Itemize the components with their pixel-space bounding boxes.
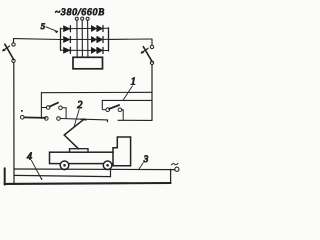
wire top trolley bus (41, 91, 152, 93)
diode VD3 (97, 26, 102, 32)
terminal left feeder (21, 116, 25, 120)
wire right branch (102, 99, 152, 101)
current collector shoe (81, 118, 86, 120)
wire left DC lead (14, 38, 61, 41)
leader 4 arrowhead (40, 177, 43, 180)
leader for 1 (123, 86, 132, 100)
wire bottom trolley bus right (118, 119, 152, 121)
rectifier 5 right bus (108, 28, 110, 51)
trolley wire mid (14, 175, 111, 176)
disconnector lower left (45, 117, 49, 121)
wire phase A drop (76, 20, 78, 57)
trolley car body (50, 152, 114, 163)
tilde mark (172, 163, 178, 165)
svg-text:5: 5 (41, 21, 45, 31)
wire left bus drop (40, 93, 42, 119)
diode VD4 (64, 37, 71, 43)
phase terminal C (86, 17, 89, 20)
diode VD7 (64, 47, 71, 53)
trolley car cab (113, 137, 131, 166)
wire phase C drop (87, 20, 89, 57)
diode VD2 (91, 26, 96, 32)
disconnector upper left (41, 107, 46, 109)
wheel right (103, 161, 112, 170)
ground wall (4, 168, 6, 184)
rectifier output block (73, 57, 103, 69)
leader for 2 (74, 109, 79, 126)
diode VD9 (97, 47, 102, 53)
wire right return riser (170, 169, 172, 183)
current collector arm upper (64, 119, 84, 135)
phase terminal B (81, 17, 84, 20)
wire left feeder drop (13, 63, 15, 184)
disconnector right (106, 108, 110, 112)
svg-text:~380/660В: ~380/660В (55, 8, 104, 18)
polarity dot (21, 110, 23, 112)
left knife switch (13, 39, 15, 43)
wire thick feeder (24, 116, 45, 119)
rectifier row 2 wire (61, 38, 109, 40)
rectifier row 1 wire (61, 27, 109, 29)
rail line (14, 168, 175, 171)
right knife switch (151, 39, 153, 45)
wire phase B drop (81, 20, 83, 57)
wire right DC lead (109, 38, 153, 40)
svg-text:3: 3 (143, 154, 149, 164)
diode VD1 (64, 26, 71, 32)
terminal right (175, 167, 179, 171)
svg-text:2: 2 (77, 100, 83, 111)
diode VD5 (91, 37, 96, 43)
rectifier row 3 wire (61, 49, 109, 51)
diode VD8 (91, 47, 96, 53)
leader for 5 (46, 27, 58, 32)
current collector arm lower (64, 135, 78, 149)
svg-text:1: 1 (131, 77, 136, 88)
rectifier 5 left bus (60, 28, 62, 50)
phase terminal A (75, 17, 78, 20)
current collector base (70, 149, 89, 153)
leader for 3 (139, 163, 144, 170)
wheel left (60, 161, 69, 170)
wire right feeder drop (151, 65, 153, 121)
bottom return line (5, 182, 171, 185)
leader for 4 (31, 160, 42, 179)
wire bottom trolley bus left (60, 119, 107, 120)
wire mid step up (110, 170, 112, 177)
diode VD6 (97, 37, 102, 43)
